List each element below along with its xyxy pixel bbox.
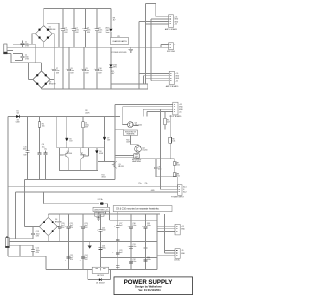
svg-text:-55: -55 — [174, 24, 177, 26]
connector J7 pin wires — [157, 251, 175, 256]
label R11 — [102, 174, 106, 178]
LED2 with labels — [109, 47, 117, 89]
wire Q3 to Q4 — [130, 135, 138, 146]
connector J4 pin wires — [115, 105, 173, 117]
transformer T1 — [3, 44, 13, 54]
svg-text:POWER GROUND: POWER GROUND — [112, 52, 128, 54]
zener D6 — [65, 117, 73, 148]
capacitor C22 lower — [67, 255, 74, 261]
svg-text:4k7: 4k7 — [112, 73, 115, 75]
bridge rectifier D2 — [33, 71, 57, 88]
connector J3 AMP R BOARD — [166, 71, 180, 88]
svg-text:100R: 100R — [126, 142, 131, 144]
svg-text:PS+: PS+ — [139, 183, 142, 185]
svg-text:AMP R BOARD: AMP R BOARD — [166, 85, 179, 88]
svg-text:C5200: C5200 — [142, 149, 147, 151]
wire left drop — [7, 117, 9, 187]
capacitor C15 column — [23, 117, 30, 180]
top rail +V — [44, 9, 111, 26]
ground symbol — [97, 216, 101, 220]
capacitor column C30 — [129, 214, 136, 270]
capacitor C2 snubber — [13, 54, 30, 61]
svg-text:BC546: BC546 — [67, 153, 72, 155]
svg-text:100u: 100u — [132, 246, 136, 248]
capacitor C20 — [58, 214, 65, 241]
capacitor column C33 — [144, 214, 151, 270]
wire across Q1 region — [56, 147, 104, 149]
svg-text:SPK GND: SPK GND — [167, 51, 176, 53]
capacitor C4 — [72, 9, 79, 48]
capacitor C7 — [52, 34, 60, 89]
power ground arrow — [88, 242, 92, 249]
bridge rectifier D3 — [39, 218, 62, 236]
fuse F2 — [98, 198, 104, 205]
rail R4 bottom section — [46, 269, 157, 271]
svg-text:HEATSINK: HEATSINK — [132, 160, 142, 163]
connector J1 AMP L BOARD — [165, 15, 179, 31]
right bus top loop — [139, 4, 156, 90]
resistor R6 — [169, 115, 175, 159]
capacitor C14 — [13, 245, 40, 256]
rail C -V — [42, 84, 148, 89]
transistor Q4 — [135, 146, 148, 153]
wire Q4 out — [137, 157, 175, 160]
rail lower right — [101, 256, 158, 258]
wire T1 top to bridge D1 — [13, 44, 169, 47]
capacitor C21 — [67, 214, 74, 270]
chassis earth box — [111, 36, 129, 44]
svg-text:POWER INPUT: POWER INPUT — [171, 197, 185, 199]
rail R2 bottom section — [13, 241, 157, 243]
wire — [43, 42, 45, 47]
svg-text:BRIDGE: BRIDGE — [49, 29, 57, 31]
connector J6 pin wires — [157, 226, 175, 231]
svg-text:BRIDGE: BRIDGE — [49, 84, 57, 86]
transistor Q2 — [80, 152, 85, 159]
connector J4 — [169, 102, 183, 118]
Q4 heatsink box — [132, 154, 142, 163]
resistor R3 column — [82, 117, 89, 148]
connector J7 — [174, 249, 186, 262]
regulator U1 box — [93, 207, 110, 217]
capacitor C13 — [13, 227, 40, 239]
wire — [16, 192, 178, 239]
wire node out of pair box — [98, 148, 115, 162]
wire column to Q1 — [55, 117, 57, 148]
capacitor C26 lower — [99, 246, 106, 250]
svg-text:AC1: AC1 — [183, 185, 186, 188]
capacitor pair columns — [38, 117, 48, 180]
wire — [32, 34, 36, 45]
polarity marks bottom caps — [56, 226, 144, 262]
capacitor C10 — [95, 47, 102, 89]
svg-text:C9 & C10 mounted on separate h: C9 & C10 mounted on separate heatsinks. — [116, 208, 160, 211]
capacitor column C27 — [116, 212, 123, 270]
svg-text:100u: 100u — [132, 261, 136, 263]
polarity marks caps — [51, 28, 96, 71]
svg-text:100n: 100n — [23, 149, 27, 151]
capacitor C9 — [82, 47, 89, 89]
svg-text:100n: 100n — [102, 230, 106, 232]
svg-text:Ver. 01 01/11/2011: Ver. 01 01/11/2011 — [138, 288, 161, 292]
connector J3 pin wires — [139, 73, 169, 84]
resistor R5 — [164, 112, 170, 130]
wire T2 top pin — [13, 238, 16, 240]
connector J5 POWER IN — [171, 185, 186, 199]
svg-text:4k7: 4k7 — [167, 122, 170, 124]
long horizontals lower middle — [25, 179, 116, 181]
capacitor C25 column — [99, 214, 106, 270]
label R10 — [126, 140, 131, 144]
connector J1 pin wires — [139, 17, 169, 24]
wire snubber right vertical — [34, 44, 36, 63]
wire T1 bottom loop to D2 — [11, 53, 42, 71]
svg-text:100u: 100u — [102, 248, 106, 250]
label above rail — [85, 110, 90, 114]
svg-text:100u: 100u — [132, 225, 136, 227]
transistor stubs — [60, 148, 89, 171]
svg-text:4148: 4148 — [99, 153, 103, 155]
wire bottom right — [156, 177, 177, 190]
wire fuse feed — [43, 192, 107, 207]
diode D5 on rail — [16, 110, 20, 123]
svg-text:AC2: AC2 — [183, 191, 186, 194]
svg-text:F2 5A: F2 5A — [98, 198, 104, 201]
capacitor C23 — [81, 214, 88, 270]
bridge D3 wires — [25, 214, 60, 241]
capacitor C3 — [61, 9, 68, 90]
resistor R7 — [173, 159, 179, 173]
svg-text:2m2: 2m2 — [119, 225, 122, 227]
capacitor C24 lower — [81, 255, 88, 261]
wire D2 left vertex — [29, 63, 34, 80]
svg-text:D4 1N4007: D4 1N4007 — [96, 282, 105, 284]
svg-text:5mm: 5mm — [106, 32, 110, 34]
rail M1 — [8, 116, 120, 118]
Q3 heatsink box — [124, 130, 138, 136]
diode D4 loop — [88, 270, 111, 285]
transistor Q1 — [63, 151, 72, 158]
svg-text:CHASSIS EARTH: CHASSIS EARTH — [112, 40, 127, 43]
wire D1 right vertex to cap column — [52, 33, 54, 35]
svg-text:4k7: 4k7 — [113, 20, 116, 22]
svg-text:PS-: PS- — [145, 183, 148, 185]
title block — [114, 277, 193, 295]
svg-text:BD139: BD139 — [118, 166, 123, 168]
transformer T2 — [5, 236, 13, 248]
svg-text:2SC5200: 2SC5200 — [135, 124, 142, 126]
svg-text:100n: 100n — [147, 225, 151, 227]
svg-text:AMP L BOARD: AMP L BOARD — [165, 28, 178, 31]
svg-text:10u: 10u — [44, 149, 47, 151]
svg-text:100n: 100n — [158, 168, 162, 170]
LED1 with resistor — [105, 9, 115, 38]
svg-text:0R22: 0R22 — [102, 176, 106, 178]
bus column right — [144, 214, 165, 270]
svg-text:100n: 100n — [147, 259, 151, 261]
capacitor C5 — [84, 9, 91, 48]
svg-text:MOUNTED ON: MOUNTED ON — [125, 132, 137, 134]
wire D2 bottom to rail C — [41, 88, 43, 89]
rail R1 bottom section — [48, 213, 160, 215]
capacitor C8b — [154, 159, 162, 177]
svg-text:-55: -55 — [179, 112, 182, 114]
wire regulator output rail — [109, 211, 157, 220]
capacitor C8 — [67, 47, 74, 89]
resistor R8b — [173, 173, 179, 178]
svg-text:2m2: 2m2 — [119, 252, 122, 254]
svg-text:10k: 10k — [177, 164, 180, 166]
wire D2 right vertex — [50, 79, 54, 81]
wire T2 bottom pin — [13, 245, 20, 256]
transistor Q3 — [115, 107, 142, 130]
wire — [24, 180, 26, 227]
svg-text:LM317 REG +15: LM317 REG +15 — [94, 209, 108, 211]
svg-text:10k: 10k — [42, 125, 45, 127]
svg-text:10k: 10k — [172, 141, 175, 143]
svg-text:PROT BOARD: PROT BOARD — [169, 115, 182, 118]
capacitor C1 snubber — [21, 41, 30, 48]
wire — [8, 187, 178, 257]
capacitor C6 — [95, 9, 102, 48]
earth ground symbol — [129, 47, 133, 52]
svg-text:LM 7915: LM 7915 — [97, 275, 104, 277]
wire lower left — [8, 256, 46, 269]
bridge rectifier D1 — [36, 23, 59, 47]
feedback box outline — [60, 148, 98, 171]
connector J2 speaker gnd — [167, 43, 176, 53]
transistor Q5 — [112, 161, 124, 168]
net labels PS — [139, 183, 156, 192]
svg-text:+: + — [174, 44, 175, 46]
svg-text:-55: -55 — [175, 80, 178, 82]
svg-text:Design by Walkelone: Design by Walkelone — [135, 284, 162, 288]
svg-text:220R: 220R — [85, 112, 90, 114]
connector J2 pin wires — [161, 44, 169, 47]
regulator U2 box — [92, 263, 108, 276]
wire LED2 bottom bus — [111, 83, 148, 85]
svg-text:BC546: BC546 — [80, 154, 85, 156]
emitter wires — [115, 105, 134, 180]
connector J6 — [175, 224, 186, 235]
diode D9 — [95, 148, 103, 171]
svg-text:5408: 5408 — [16, 122, 20, 124]
zener D7 — [103, 117, 111, 148]
svg-text:12V AC: 12V AC — [174, 259, 181, 262]
wire vertical right — [161, 109, 178, 189]
note box — [113, 206, 172, 212]
